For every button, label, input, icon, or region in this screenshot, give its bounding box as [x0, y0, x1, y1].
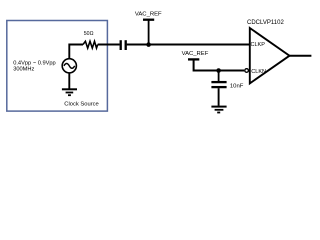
svg-text:CDCLVP1102: CDCLVP1102	[247, 20, 284, 26]
svg-text:CLKN: CLKN	[251, 69, 266, 75]
svg-text:VAC_REF: VAC_REF	[135, 11, 162, 17]
wire VAC_REF rail to CLKN bubble	[194, 59, 244, 70]
svg-text:300MHz: 300MHz	[13, 67, 34, 73]
node A (junction on CLKP wire)	[146, 42, 151, 47]
sine source V1	[62, 59, 76, 73]
svg-text:10nF: 10nF	[230, 84, 244, 90]
wire VAC_REF rail to node A	[148, 20, 150, 45]
svg-text:VAC_REF: VAC_REF	[182, 51, 209, 57]
wire V1 to ground	[68, 73, 70, 89]
power rail bar VAC_REF (top)	[143, 19, 154, 21]
svg-text:CLKP: CLKP	[251, 42, 266, 48]
buffer U1 CDCLVP1102 (triangle)	[250, 28, 290, 83]
wire C2 to ground	[218, 88, 220, 106]
power rail bar VAC_REF (lower)	[188, 58, 199, 60]
wire R1 to C1	[98, 44, 120, 46]
resistor R1 50Ω	[83, 41, 98, 48]
svg-text:0.4Vpp ~ 0.9Vpp: 0.4Vpp ~ 0.9Vpp	[13, 60, 56, 66]
clock source box	[7, 21, 108, 112]
capacitor C2 10nF	[211, 82, 226, 87]
node B (junction on CLKN wire)	[216, 68, 221, 73]
svg-text:Clock Source: Clock Source	[64, 102, 98, 108]
ground (under V1)	[62, 89, 77, 95]
CLKN pin inversion bubble	[245, 69, 249, 73]
wire V1 to R1	[69, 45, 83, 59]
svg-text:50Ω: 50Ω	[84, 31, 94, 37]
capacitor C1 (series coupling)	[121, 40, 126, 50]
output wire of U1	[290, 55, 312, 57]
ground (under C2)	[211, 107, 226, 113]
wire C1 to CLKP pin	[127, 44, 250, 46]
wire node B to C2	[218, 71, 220, 82]
